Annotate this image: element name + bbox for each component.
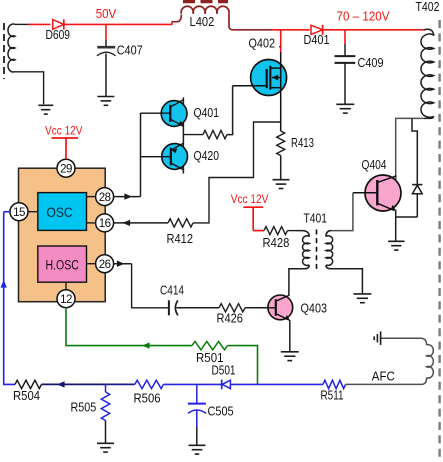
wire Q404 base from T401 [331, 193, 353, 231]
svg-text:Vcc 12V: Vcc 12V [45, 124, 83, 138]
resistor R505 [71, 384, 110, 443]
svg-text:Vcc 12V: Vcc 12V [231, 192, 268, 206]
ground [388, 241, 405, 250]
svg-text:Q403: Q403 [301, 300, 328, 315]
CRT dashed line [438, 20, 440, 457]
wire Q404 emitter [395, 210, 397, 242]
svg-text:R426: R426 [217, 311, 243, 326]
svg-text:C409: C409 [358, 55, 384, 70]
flyback transformer T402 [416, 0, 440, 118]
wire branch to damper diode [412, 118, 417, 184]
svg-text:OSC: OSC [47, 204, 73, 220]
wire T402 bottom lead [396, 118, 424, 180]
wire 50V rail to junction [64, 23, 106, 25]
wire R412 to Q402 source node [193, 122, 281, 223]
resistor R511 [321, 380, 346, 402]
wire pin28 to driver bases [114, 193, 141, 199]
svg-text:AFC: AFC [372, 369, 395, 384]
resistor R428 [263, 227, 296, 250]
pin 28 [96, 188, 114, 206]
H.OSC block [38, 246, 87, 282]
wire primary top lead [15, 23, 29, 25]
wire R501 to AFC line (green) [228, 346, 258, 385]
wire pin15 to OSC [28, 211, 38, 213]
capacitor C505 [188, 384, 234, 445]
wire R506 to D501 [164, 383, 222, 385]
resistor R506 [134, 380, 164, 405]
svg-text:D609: D609 [46, 27, 71, 42]
resistor R412 [167, 219, 194, 246]
wire D501 to R511 [230, 383, 323, 385]
svg-text:26: 26 [99, 259, 111, 271]
svg-text:R505: R505 [71, 399, 97, 414]
svg-text:15: 15 [13, 207, 25, 219]
svg-text:C407: C407 [117, 43, 143, 58]
wire R511 to AFC coil [346, 383, 422, 385]
label 50V [96, 7, 117, 21]
svg-text:L402: L402 [190, 14, 215, 29]
ground [273, 180, 290, 189]
wire base bus [140, 113, 142, 197]
svg-text:50V: 50V [96, 7, 117, 21]
label AFC [372, 369, 395, 384]
svg-text:C414: C414 [160, 282, 184, 297]
svg-text:Q404: Q404 [362, 157, 387, 172]
transistor Q403 [268, 295, 327, 320]
diode D501 [212, 363, 236, 390]
pin 15 [10, 203, 28, 221]
svg-text:H.OSC: H.OSC [45, 256, 79, 272]
wire pin15 (blue, sync) [1, 212, 16, 385]
ground [336, 104, 354, 113]
svg-text:Q401: Q401 [194, 105, 220, 120]
pin 16 [96, 214, 114, 232]
svg-text:R428: R428 [263, 235, 290, 250]
resistor R413 [277, 131, 314, 180]
AFC coil (flyback winding) [381, 338, 434, 384]
damper diode (across Q404) [396, 185, 423, 217]
svg-text:70 – 120V: 70 – 120V [337, 9, 391, 23]
ground [97, 443, 114, 452]
pin 29 [57, 159, 75, 177]
diode D609 [46, 19, 71, 42]
svg-text:C505: C505 [208, 403, 234, 418]
svg-text:28: 28 [99, 192, 111, 204]
diode D401 [304, 25, 330, 47]
inductor L402 [177, 2, 233, 30]
svg-text:Q420: Q420 [194, 148, 220, 163]
svg-text:29: 29 [60, 163, 72, 175]
ground [281, 352, 299, 361]
ground [353, 294, 371, 303]
svg-text:T401: T401 [304, 210, 328, 225]
wire T401 right winding bottom to ground [332, 269, 363, 294]
svg-text:T402: T402 [416, 0, 440, 14]
svg-text:16: 16 [99, 218, 111, 230]
svg-text:R412: R412 [167, 231, 194, 246]
capacitor C407 [97, 24, 143, 96]
ground [189, 445, 206, 454]
svg-text:Q402: Q402 [249, 36, 276, 51]
OSC block [38, 193, 87, 231]
resistor R426 [217, 304, 269, 326]
capacitor C414 [160, 282, 219, 315]
capacitor C409 [335, 30, 384, 104]
transistor Q420 [141, 143, 220, 170]
wire pin26 to C414 [114, 261, 169, 308]
resistor R504 [13, 380, 42, 403]
wire OSC to pin16 [87, 222, 96, 224]
svg-text:R506: R506 [134, 390, 161, 405]
transistor Q401 [141, 100, 220, 127]
ground [38, 105, 53, 114]
wire H.OSC to pin12 [65, 282, 67, 290]
transformer T401 [296, 210, 333, 269]
wire 70-120V rail [323, 29, 425, 31]
ground (AFC return) [374, 331, 380, 345]
svg-text:R413: R413 [291, 135, 314, 150]
svg-text:D401: D401 [304, 32, 330, 47]
node 50V junction / wire to L402 [106, 21, 177, 25]
wire pin16 from R412 [114, 220, 168, 226]
wire T401 left winding bottom to Q403 collector [289, 269, 304, 296]
resistor (Q402 gate drive) [183, 86, 232, 139]
wire Q401/Q420 collector-emitter bus [182, 97, 184, 173]
label 70-120V [337, 9, 391, 23]
svg-text:12: 12 [60, 294, 72, 306]
wire primary bottom lead to ground [15, 72, 44, 105]
svg-text:.: . [278, 36, 281, 51]
ground [97, 97, 114, 106]
MOSFET Q402 [233, 30, 287, 131]
resistor R501 [192, 341, 228, 365]
svg-text:R511: R511 [321, 387, 344, 402]
wire OSC to pin28 [87, 196, 96, 198]
pin 26 [96, 255, 114, 273]
svg-text:D501: D501 [212, 363, 236, 378]
wire L402 to D401 [233, 29, 310, 31]
wire R504 to R506 [42, 381, 135, 387]
IC block U401 [19, 168, 106, 302]
wire 50V rail [29, 23, 51, 25]
transistor Q404 [353, 157, 401, 211]
wire pin12 feedback (green) [66, 308, 192, 349]
svg-text:R504: R504 [13, 388, 40, 403]
pin 12 [57, 290, 75, 308]
Vcc 12V supply (R428) [231, 192, 268, 231]
wire Q403 emitter to ground [289, 320, 291, 352]
input transformer primary winding [4, 23, 15, 79]
wire H.OSC to pin26 [87, 263, 96, 265]
Vcc 12V supply (pin 29) [45, 124, 83, 160]
